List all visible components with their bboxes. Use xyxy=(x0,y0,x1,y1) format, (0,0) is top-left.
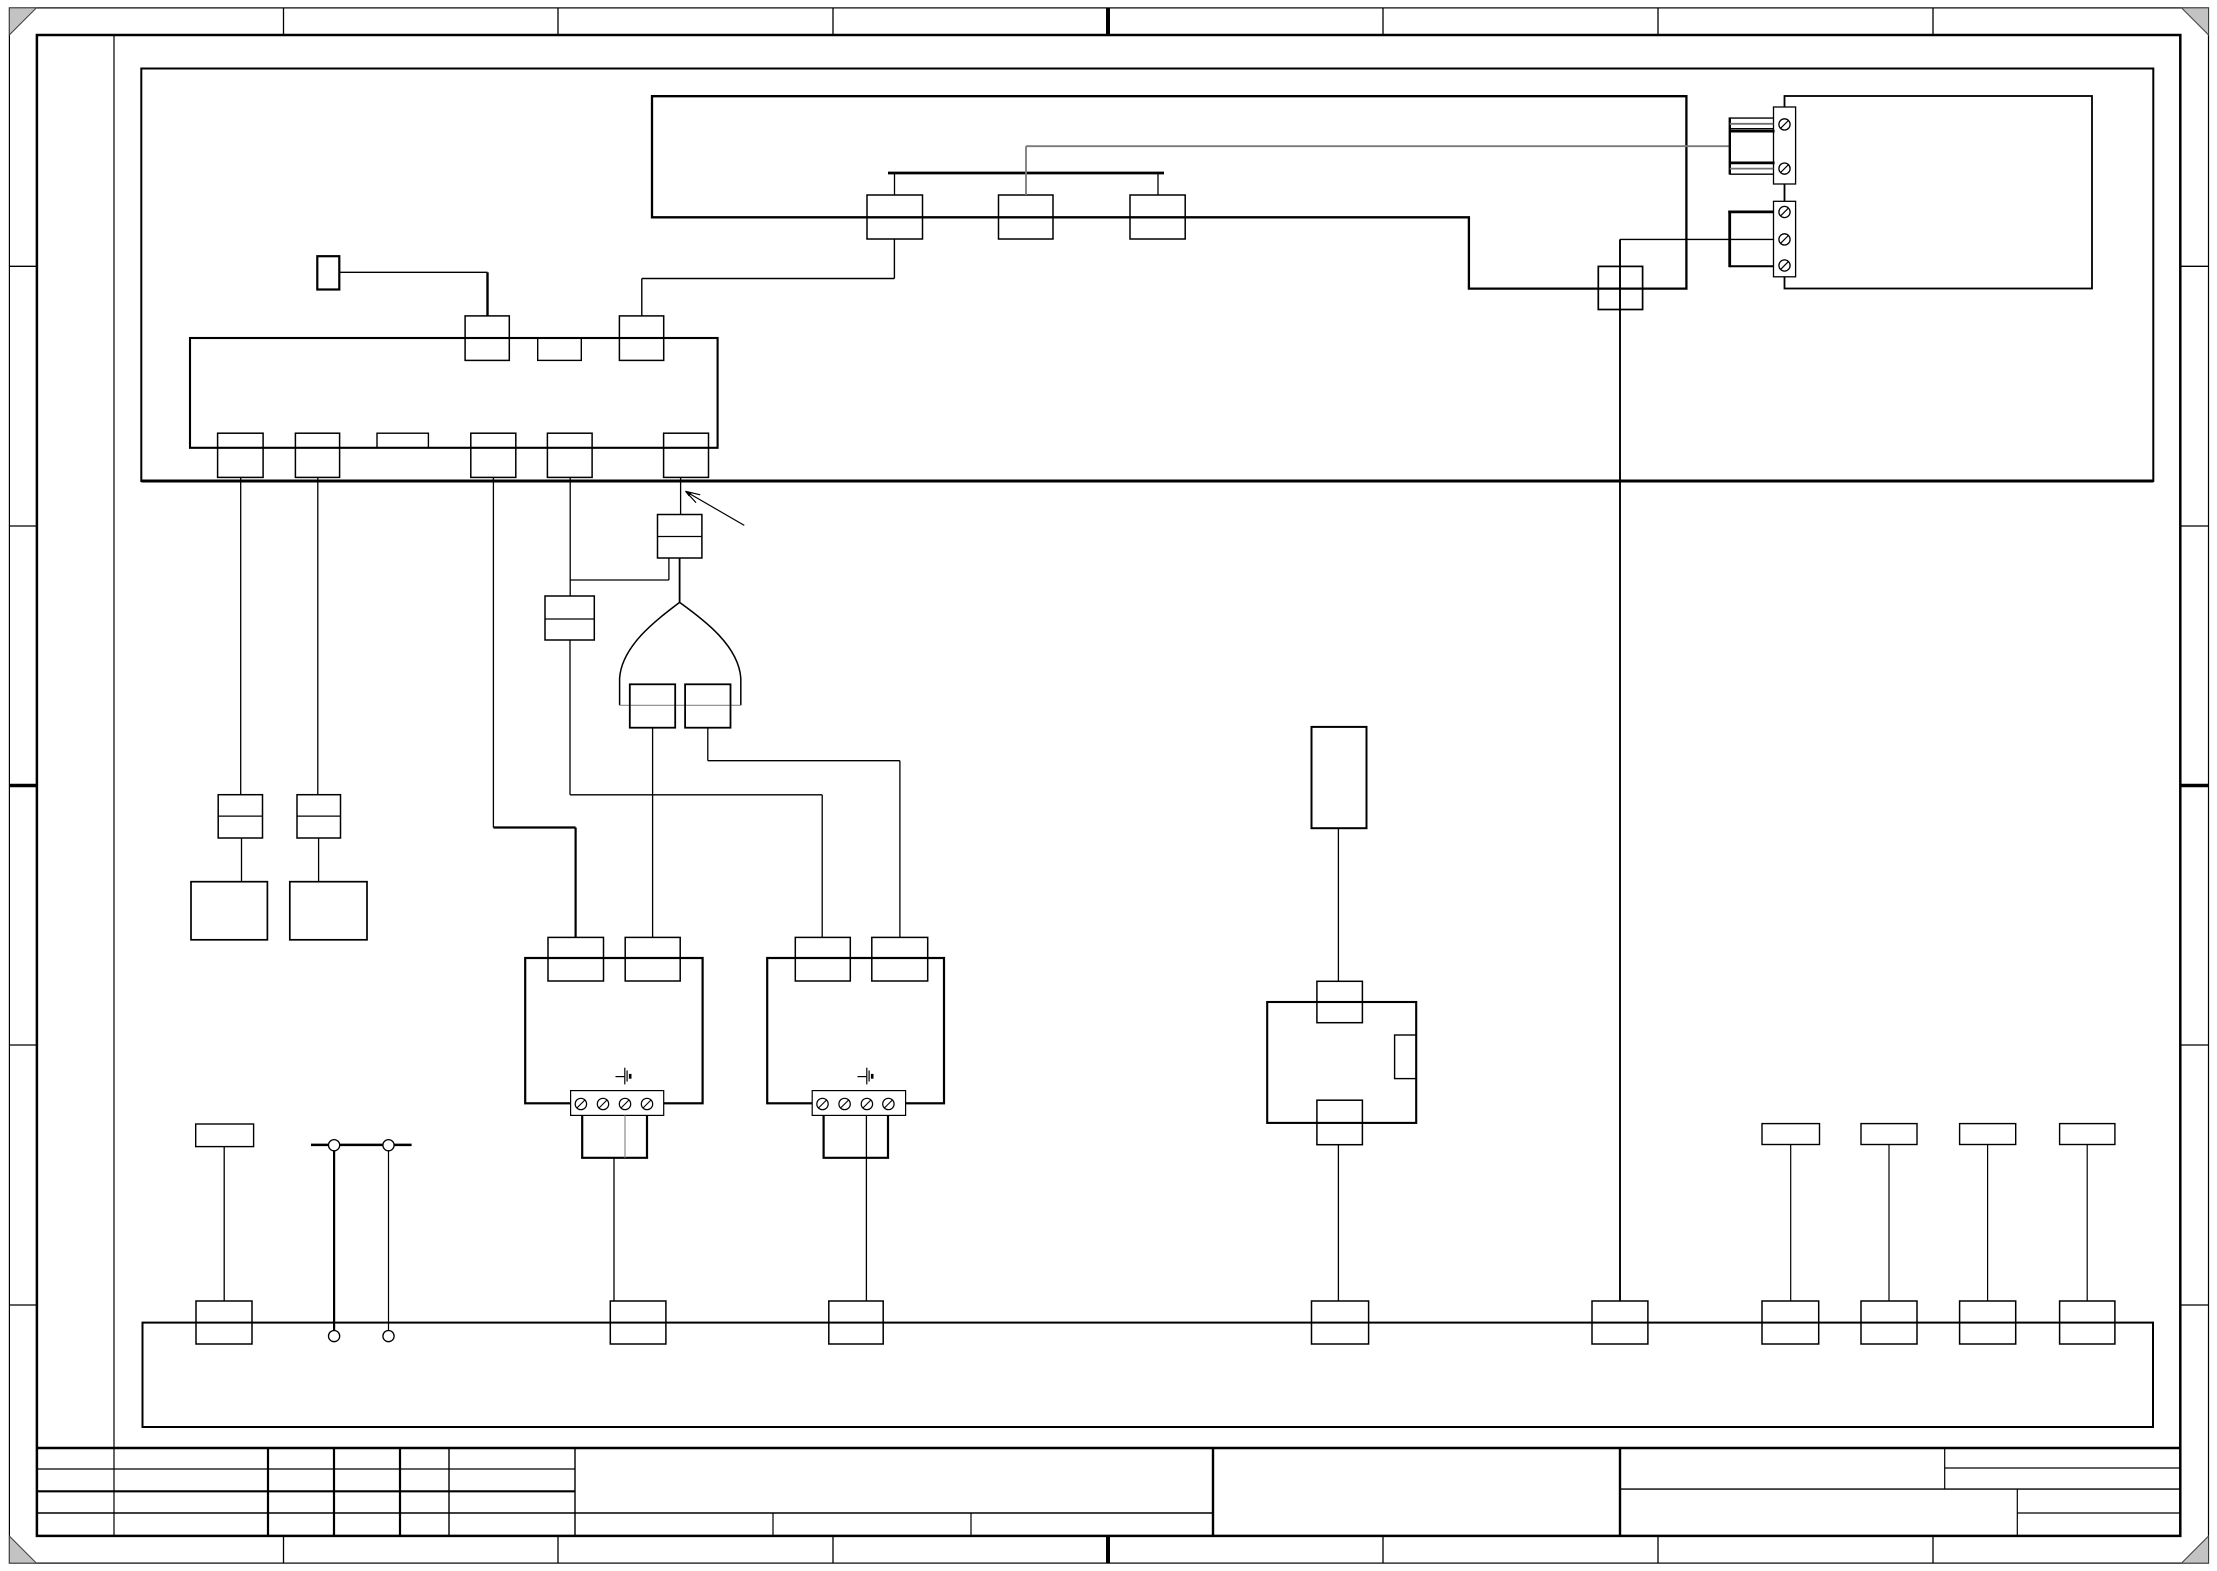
wire F4 to R2 xyxy=(318,838,320,882)
terminal X1 on A2 xyxy=(465,316,509,361)
wire A4 to bus xyxy=(865,1115,867,1301)
bus bar enclosure xyxy=(143,1323,2154,1427)
terminal block XT1 xyxy=(1774,107,1796,184)
wire S1 to X1 xyxy=(339,272,487,316)
bus terminal for T2 xyxy=(1861,1301,1917,1344)
sensor T1 head xyxy=(1762,1124,1820,1145)
device A4 connector R xyxy=(872,937,928,981)
shield wire in A3 clamp (gray) xyxy=(624,1115,626,1157)
wire K1 down to terminal X3 xyxy=(642,239,895,316)
sensor T0 head xyxy=(196,1124,254,1147)
controller unit A1 (stepped enclosure) xyxy=(652,96,1686,288)
fuse F3 xyxy=(218,795,262,838)
wire T1 to bus xyxy=(1790,1145,1792,1302)
bus line inside A1 xyxy=(888,172,1164,175)
junction box U5 xyxy=(1598,266,1642,309)
wire F1 branch to B5 riser xyxy=(570,558,669,580)
bus terminal for T4 xyxy=(2060,1301,2115,1344)
terminal B2 on A2 xyxy=(295,433,339,477)
wire F2 to device A4 xyxy=(570,640,822,937)
terminal K1 on A1 xyxy=(867,195,923,239)
wire F1 to splitter xyxy=(679,558,681,602)
fuse F1 xyxy=(658,515,702,559)
device A5 bottom connector xyxy=(1317,1100,1363,1145)
cable clamp of A3 xyxy=(581,1115,648,1157)
wire splitter L to A3 xyxy=(652,728,654,938)
bus terminal for A4 xyxy=(829,1301,883,1344)
wire B4 down xyxy=(492,477,494,827)
bottom contact circle R xyxy=(383,1331,394,1342)
device A5 box xyxy=(1267,1002,1416,1123)
ground symbol in A3 xyxy=(616,1068,631,1085)
wire B4 to device A3 (thick) xyxy=(493,828,575,938)
wire T0 to bus xyxy=(223,1147,225,1301)
load box R1 xyxy=(191,882,267,940)
terminal block XT2 xyxy=(1774,201,1796,276)
terminal K2 on A1 xyxy=(999,195,1054,239)
terminal K3 on A1 xyxy=(1130,195,1185,239)
splitter terminal L xyxy=(630,684,675,727)
fuse F2 xyxy=(545,596,594,640)
device A3 box xyxy=(525,958,702,1103)
sensor T3 head xyxy=(1960,1124,2016,1145)
wire A3 to bus xyxy=(613,1158,615,1301)
wire bus to K1 xyxy=(894,173,896,195)
wire B2 to F4 xyxy=(317,477,319,794)
I/O module A2 (left long box) xyxy=(190,338,718,448)
terminal B3 on A2 xyxy=(377,433,428,448)
wire XT2 to junction xyxy=(1620,238,1774,240)
wire F3 to R1 xyxy=(241,838,243,882)
wire K2 to connector pins (gray) xyxy=(1026,146,1729,195)
wire W1 to A5 xyxy=(1337,828,1339,981)
terminal B1 on A2 xyxy=(218,433,264,477)
device A4 connector L xyxy=(795,937,850,981)
terminal B5 on A2 xyxy=(547,433,592,477)
splitter terminal R xyxy=(685,684,730,727)
terminal X3 on A2 xyxy=(619,316,663,361)
bus terminal for A5 xyxy=(1312,1301,1369,1344)
load box R2 xyxy=(290,882,367,940)
fuse F4 xyxy=(297,795,341,838)
wire A5 to bus xyxy=(1337,1145,1339,1301)
bus terminal for A3 xyxy=(610,1301,666,1344)
wire splitter R to A4 xyxy=(708,728,900,938)
link bar with contacts S2 xyxy=(311,1140,412,1151)
splitter Y1 xyxy=(620,602,741,705)
terminal B6 on A2 xyxy=(664,433,709,477)
wire T4 to bus xyxy=(2086,1145,2088,1302)
pushbutton box S1 xyxy=(317,256,339,289)
device A4 box xyxy=(767,958,944,1103)
ground symbol in A4 xyxy=(858,1068,873,1085)
wire B5 to F2 xyxy=(569,477,571,596)
sensor T4 head xyxy=(2060,1124,2115,1145)
power supply unit G1 (top right box) xyxy=(1785,96,2093,289)
device A3 connector R xyxy=(625,937,680,981)
bottom contact circle L xyxy=(329,1331,340,1342)
enclosure panel boundary xyxy=(141,69,2153,482)
wire contact L down xyxy=(333,1151,335,1331)
bus terminal for T0 xyxy=(196,1301,252,1344)
wire T3 to bus xyxy=(1987,1145,1989,1302)
wire bus to K3 xyxy=(1157,173,1159,195)
side port of A5 xyxy=(1395,1035,1417,1079)
bus terminal for T3 xyxy=(1960,1301,2016,1344)
vertical feeder wire xyxy=(1619,239,1621,1301)
device A3 connector L xyxy=(548,937,604,981)
terminal B4 on A2 xyxy=(471,433,516,477)
cable clamp of A4 xyxy=(823,1115,890,1157)
bracket of XT2 xyxy=(1728,211,1773,268)
terminal strip of A3 xyxy=(571,1091,664,1116)
terminal strip of A4 xyxy=(812,1091,905,1116)
wire contact R down xyxy=(388,1151,390,1331)
sensor T2 head xyxy=(1861,1124,1917,1145)
wire B6 to F1 xyxy=(680,477,682,514)
annotation arrow xyxy=(685,491,744,525)
antenna box W1 xyxy=(1312,727,1367,828)
device A5 top connector xyxy=(1317,981,1363,1022)
bus terminal for feeder xyxy=(1592,1301,1648,1344)
terminal X2 on A2 xyxy=(538,338,582,360)
connector plug P1 xyxy=(1730,117,1775,174)
wire B1 to F3 xyxy=(240,477,242,794)
wire T2 to bus xyxy=(1888,1145,1890,1302)
bus terminal for T1 xyxy=(1762,1301,1819,1344)
